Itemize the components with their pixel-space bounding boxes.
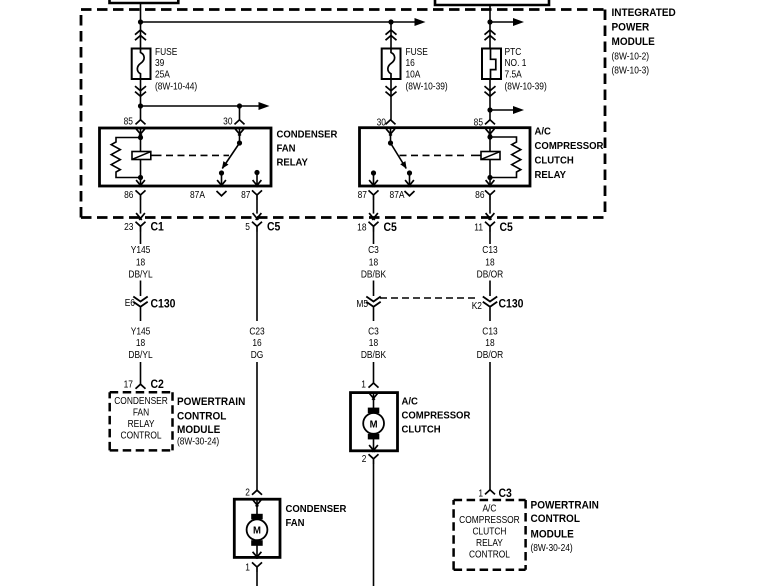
svg-text:(8W-30-24): (8W-30-24) (530, 542, 572, 553)
svg-text:18: 18 (136, 337, 145, 348)
svg-text:C2: C2 (151, 379, 164, 392)
svg-text:C23: C23 (249, 326, 264, 337)
svg-text:CONTROL: CONTROL (469, 549, 510, 560)
svg-text:C130: C130 (151, 298, 176, 311)
svg-text:87: 87 (241, 189, 250, 200)
svg-text:86: 86 (124, 189, 133, 200)
svg-text:1: 1 (361, 379, 366, 390)
svg-text:(8W-10-2): (8W-10-2) (612, 51, 650, 62)
svg-text:85: 85 (124, 116, 133, 127)
svg-text:87: 87 (358, 189, 367, 200)
svg-text:CLUTCH: CLUTCH (472, 526, 506, 537)
svg-text:POWERTRAIN: POWERTRAIN (531, 499, 599, 512)
svg-text:FAN: FAN (133, 407, 149, 418)
svg-text:E6: E6 (125, 297, 135, 308)
svg-text:FAN: FAN (276, 143, 295, 155)
svg-text:16: 16 (405, 57, 414, 68)
svg-text:C1: C1 (151, 221, 164, 234)
svg-text:DB/YL: DB/YL (128, 349, 152, 360)
svg-text:PTC: PTC (505, 46, 522, 57)
svg-text:18: 18 (369, 257, 378, 268)
svg-text:86: 86 (475, 189, 484, 200)
svg-text:(8W-10-39): (8W-10-39) (405, 81, 447, 92)
svg-text:POWER: POWER (612, 21, 650, 34)
svg-text:C13: C13 (482, 326, 497, 337)
svg-text:DB/YL: DB/YL (128, 269, 152, 280)
svg-text:RELAY: RELAY (128, 418, 155, 429)
svg-text:7.5A: 7.5A (505, 69, 523, 80)
svg-text:FUSE: FUSE (155, 46, 177, 57)
svg-text:85: 85 (474, 117, 483, 128)
svg-text:M5: M5 (356, 298, 368, 309)
svg-text:10A: 10A (405, 69, 421, 80)
svg-text:C5: C5 (383, 222, 396, 235)
svg-text:30: 30 (377, 117, 386, 128)
svg-text:DG: DG (251, 349, 264, 360)
svg-text:17: 17 (124, 379, 133, 390)
svg-text:18: 18 (485, 337, 494, 348)
svg-text:DB/BK: DB/BK (361, 269, 387, 280)
svg-text:1: 1 (245, 562, 250, 573)
svg-text:C130: C130 (498, 298, 523, 311)
svg-text:87A: 87A (190, 189, 206, 200)
svg-text:NO. 1: NO. 1 (505, 57, 527, 68)
svg-text:A/C: A/C (535, 126, 551, 138)
svg-text:2: 2 (245, 487, 250, 498)
svg-text:(8W-10-39): (8W-10-39) (505, 81, 547, 92)
svg-text:RELAY: RELAY (276, 157, 308, 169)
svg-text:CLUTCH: CLUTCH (535, 155, 574, 167)
svg-text:18: 18 (357, 222, 366, 233)
svg-text:C3: C3 (368, 244, 379, 255)
svg-text:23: 23 (124, 221, 133, 232)
svg-text:16: 16 (252, 337, 261, 348)
svg-text:K2: K2 (472, 300, 482, 311)
svg-text:CONDENSER: CONDENSER (285, 504, 347, 516)
svg-text:2: 2 (362, 453, 367, 464)
svg-text:87A: 87A (390, 189, 406, 200)
svg-text:FUSE: FUSE (405, 46, 427, 57)
svg-text:RELAY: RELAY (535, 170, 567, 182)
svg-text:M: M (370, 419, 378, 431)
svg-text:POWERTRAIN: POWERTRAIN (177, 396, 245, 409)
svg-text:M: M (253, 525, 261, 537)
svg-text:(8W-10-3): (8W-10-3) (612, 65, 650, 76)
svg-text:5: 5 (245, 221, 250, 232)
svg-text:COMPRESSOR: COMPRESSOR (535, 141, 605, 153)
svg-text:CONTROL: CONTROL (121, 430, 162, 441)
svg-text:DB/BK: DB/BK (361, 349, 387, 360)
svg-text:FAN: FAN (285, 518, 304, 530)
svg-text:25A: 25A (155, 69, 171, 80)
svg-text:CONDENSER: CONDENSER (276, 129, 338, 141)
svg-text:18: 18 (485, 257, 494, 268)
svg-text:CONTROL: CONTROL (177, 410, 227, 423)
svg-text:CONTROL: CONTROL (531, 513, 581, 526)
svg-text:MODULE: MODULE (177, 424, 220, 437)
svg-text:A/C: A/C (482, 503, 496, 514)
svg-text:30: 30 (223, 116, 232, 127)
svg-text:C3: C3 (368, 326, 379, 337)
svg-text:C13: C13 (482, 244, 497, 255)
svg-text:C5: C5 (499, 222, 512, 235)
svg-text:A/C: A/C (401, 396, 417, 408)
svg-text:CONDENSER: CONDENSER (114, 395, 168, 406)
svg-text:DB/OR: DB/OR (477, 269, 504, 280)
svg-text:MODULE: MODULE (531, 528, 574, 541)
svg-text:CLUTCH: CLUTCH (401, 424, 440, 436)
svg-text:(8W-10-44): (8W-10-44) (155, 81, 197, 92)
svg-text:1: 1 (478, 488, 483, 499)
svg-text:(8W-30-24): (8W-30-24) (177, 436, 219, 447)
svg-text:COMPRESSOR: COMPRESSOR (459, 514, 520, 525)
svg-text:MODULE: MODULE (612, 36, 655, 49)
svg-text:11: 11 (474, 222, 483, 233)
svg-text:C3: C3 (498, 488, 511, 501)
svg-text:COMPRESSOR: COMPRESSOR (401, 410, 471, 422)
svg-text:INTEGRATED: INTEGRATED (612, 7, 677, 20)
svg-text:DB/OR: DB/OR (477, 349, 504, 360)
svg-text:18: 18 (136, 257, 145, 268)
svg-text:18: 18 (369, 337, 378, 348)
svg-text:Y145: Y145 (131, 326, 151, 337)
svg-text:RELAY: RELAY (476, 537, 503, 548)
svg-text:39: 39 (155, 57, 164, 68)
svg-text:Y145: Y145 (131, 244, 151, 255)
svg-text:C5: C5 (267, 221, 280, 234)
